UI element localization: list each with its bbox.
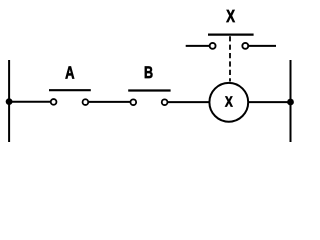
svg-text:A: A	[65, 64, 74, 83]
svg-text:X: X	[225, 93, 233, 110]
svg-text:B: B	[144, 63, 153, 82]
svg-text:X: X	[226, 7, 235, 26]
